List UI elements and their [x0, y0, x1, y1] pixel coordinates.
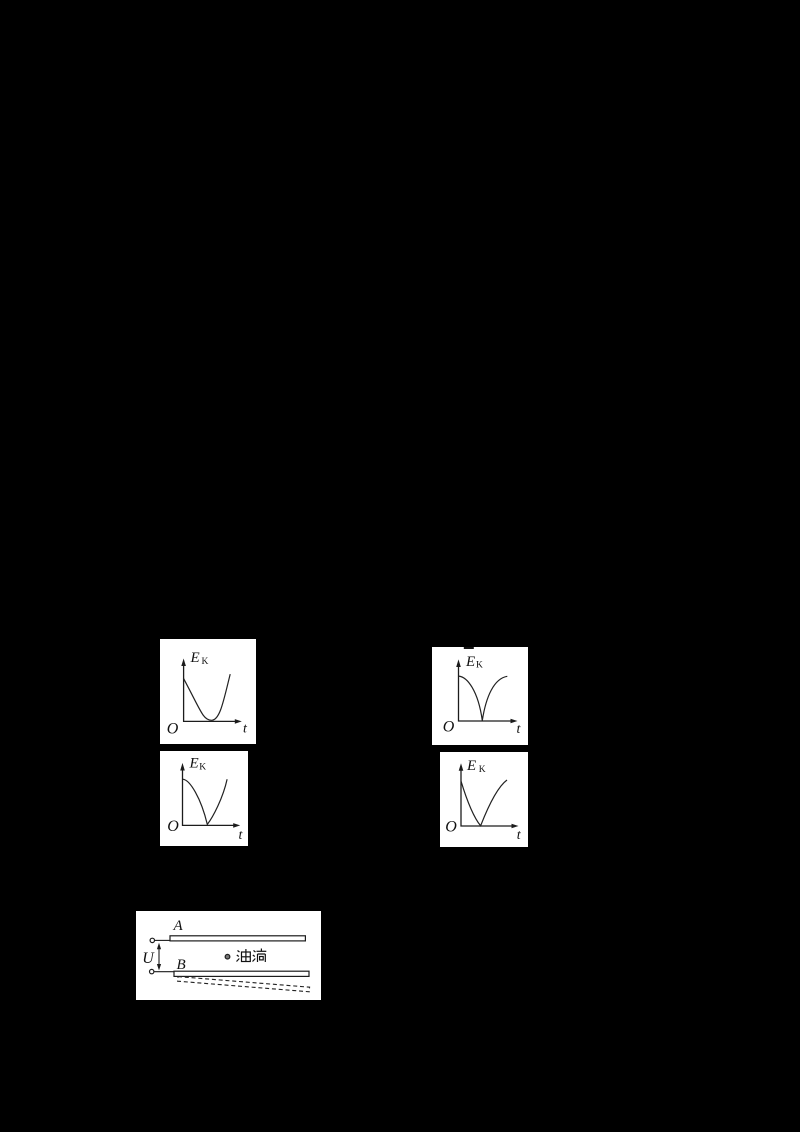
figure box: parallel plate capacitor with oil drop: [136, 911, 321, 1000]
graph C curve: [183, 779, 227, 824]
svg-text:K: K: [199, 762, 206, 772]
svg-text:t: t: [517, 828, 522, 843]
plate A: [170, 936, 305, 941]
svg-text:K: K: [476, 661, 483, 671]
char you (oil) right part: [242, 952, 251, 962]
oil drop: [225, 954, 230, 959]
svg-text:t: t: [243, 722, 248, 737]
oil drop label (hand-drawn CJK): [237, 949, 267, 963]
voltage arrow U: [157, 943, 161, 971]
figure box: graph option D: [440, 752, 528, 847]
svg-text:O: O: [445, 819, 457, 836]
char di (drop) right part: [260, 949, 262, 952]
figure box: graph option B: [432, 647, 528, 745]
graph A axis label EK: [190, 650, 209, 667]
graph B axis label EK: [465, 654, 483, 671]
wire top: [155, 939, 170, 941]
svg-text:t: t: [517, 722, 522, 737]
graph A y-axis: [181, 659, 186, 722]
figure box: graph option C: [160, 751, 248, 846]
wire bottom: [154, 971, 174, 973]
svg-text:U: U: [142, 950, 155, 967]
svg-text:E: E: [189, 756, 199, 772]
graph A x-axis: [183, 719, 242, 724]
terminal bottom: [150, 969, 154, 973]
tilted plate B dashed outline: [178, 977, 310, 992]
svg-text:K: K: [479, 765, 486, 775]
graph D y-axis: [459, 763, 464, 826]
graph D curve: [461, 780, 507, 826]
graph C x-axis: [182, 823, 240, 828]
svg-text:E: E: [465, 654, 475, 670]
svg-text:E: E: [466, 758, 476, 774]
figure box: graph option A: [160, 639, 256, 744]
graph C axis label EK: [189, 756, 207, 773]
svg-text:O: O: [167, 720, 179, 737]
stray scan mark: [464, 647, 474, 649]
svg-text:O: O: [167, 818, 179, 835]
svg-text:A: A: [173, 918, 184, 934]
graph B y-axis: [456, 659, 461, 721]
plate B: [174, 971, 309, 976]
graph D axis label EK: [466, 758, 486, 775]
terminal top: [150, 938, 154, 942]
char di (drop) water radical: [253, 951, 256, 962]
svg-text:E: E: [190, 650, 200, 666]
graph C y-axis: [180, 763, 185, 826]
graph B x-axis: [458, 719, 518, 724]
svg-text:t: t: [239, 828, 244, 843]
svg-text:O: O: [443, 718, 455, 735]
graph A curve: [183, 674, 230, 720]
graph D x-axis: [461, 824, 519, 829]
graph B curve: [459, 676, 507, 720]
svg-text:K: K: [202, 657, 209, 667]
char you (oil) water radical: [237, 951, 240, 962]
